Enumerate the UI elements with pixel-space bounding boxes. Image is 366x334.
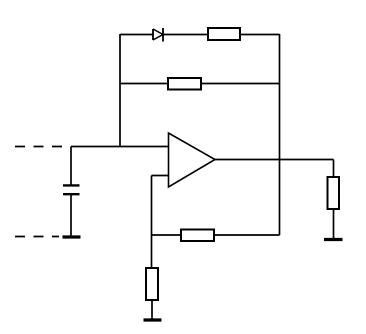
wire middle path right: [201, 83, 280, 85]
wire feedback left leg: [119, 34, 121, 147]
diode D1: [153, 28, 163, 42]
wire bottom feedback left: [152, 234, 182, 236]
wire resistor R5 to ground: [333, 209, 335, 239]
wire input dashed segment: [15, 146, 62, 148]
ground (bottom right): [324, 238, 343, 241]
resistor R3: [146, 268, 158, 300]
wire resistor R3 to ground: [151, 300, 153, 319]
resistor R1: [208, 28, 240, 40]
wire capacitor branch lower: [70, 195, 72, 236]
wire inverting input: [152, 175, 169, 177]
wire bottom feedback right: [214, 234, 280, 236]
ground (bottom left): [144, 318, 162, 321]
wire bottom dashed segment: [15, 236, 59, 238]
resistor R4: [181, 230, 214, 242]
wire middle path left: [120, 83, 168, 85]
wire diode to resistor: [163, 34, 208, 36]
wire feedback right leg: [279, 34, 281, 235]
wire inverting node vertical: [151, 176, 153, 269]
wire capacitor branch upper: [70, 147, 72, 186]
wire top path left: [120, 34, 153, 36]
wire input node horizontal: [71, 146, 168, 148]
resistor R2: [168, 78, 201, 90]
wire output horizontal: [215, 159, 334, 161]
terminal bar (capacitor bottom): [63, 235, 81, 238]
wire resistor to right leg: [240, 34, 280, 36]
op-amp U1: [169, 133, 216, 187]
wire output down leg: [333, 160, 335, 178]
resistor R5: [328, 177, 340, 209]
capacitor C1: [63, 185, 80, 194]
